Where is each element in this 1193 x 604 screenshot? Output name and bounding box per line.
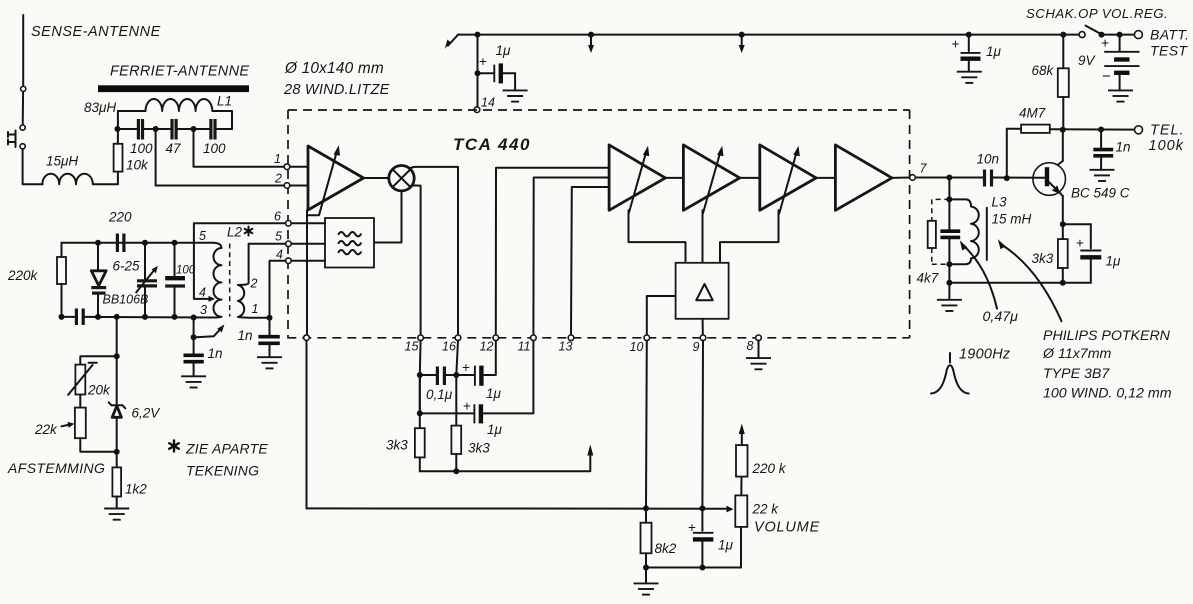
svg-text:22k: 22k	[34, 422, 58, 437]
svg-text:+: +	[479, 54, 487, 69]
svg-text:L2: L2	[227, 225, 243, 240]
svg-text:15 mH: 15 mH	[992, 212, 1032, 227]
svg-text:83μH: 83μH	[84, 100, 116, 115]
svg-text:12: 12	[480, 340, 494, 354]
svg-text:1: 1	[252, 302, 259, 316]
svg-text:5: 5	[199, 229, 206, 243]
svg-text:−: −	[1102, 68, 1111, 85]
svg-text:10k: 10k	[126, 158, 149, 173]
svg-text:BC 549 C: BC 549 C	[1071, 186, 1130, 201]
svg-text:8: 8	[747, 339, 754, 353]
svg-text:1k2: 1k2	[125, 482, 147, 497]
svg-text:100: 100	[176, 265, 196, 277]
svg-text:+: +	[688, 520, 696, 535]
svg-text:13: 13	[559, 340, 573, 354]
svg-text:220k: 220k	[7, 268, 39, 283]
svg-text:22 k: 22 k	[752, 502, 780, 517]
svg-text:L3: L3	[992, 195, 1008, 210]
svg-text:100 WIND. 0,12 mm: 100 WIND. 0,12 mm	[1043, 386, 1172, 402]
svg-text:4: 4	[199, 286, 206, 300]
svg-text:SCHAK.OP VOL.REG.: SCHAK.OP VOL.REG.	[1026, 6, 1168, 21]
svg-text:0,1μ: 0,1μ	[426, 387, 453, 402]
svg-text:1: 1	[274, 152, 281, 166]
svg-text:FERRIET-ANTENNE: FERRIET-ANTENNE	[110, 64, 249, 80]
svg-text:100: 100	[203, 141, 226, 156]
svg-text:1μ: 1μ	[496, 43, 512, 58]
svg-text:4: 4	[276, 248, 283, 262]
svg-text:3k3: 3k3	[1032, 251, 1054, 266]
svg-text:2: 2	[250, 277, 258, 291]
svg-text:28 WIND.LITZE: 28 WIND.LITZE	[283, 82, 390, 98]
svg-text:TEL.: TEL.	[1150, 123, 1185, 139]
svg-text:10: 10	[630, 340, 644, 354]
svg-text:15μH: 15μH	[46, 154, 78, 169]
svg-text:1n: 1n	[208, 346, 223, 361]
svg-text:9: 9	[693, 340, 700, 354]
svg-text:1n: 1n	[238, 328, 253, 343]
svg-text:16: 16	[442, 340, 456, 354]
svg-text:ZIE APARTE: ZIE APARTE	[185, 441, 268, 457]
svg-text:SENSE-ANTENNE: SENSE-ANTENNE	[31, 24, 161, 40]
svg-text:11: 11	[518, 340, 531, 354]
svg-text:BB106B: BB106B	[103, 293, 149, 307]
svg-text:1μ: 1μ	[1106, 254, 1122, 269]
svg-text:6-25: 6-25	[113, 259, 141, 274]
svg-text:TEKENING: TEKENING	[186, 463, 259, 479]
svg-text:TCA 440: TCA 440	[453, 135, 531, 154]
svg-text:220: 220	[108, 210, 132, 225]
svg-text:1μ: 1μ	[986, 44, 1002, 59]
svg-text:47: 47	[166, 141, 182, 156]
svg-text:3: 3	[200, 303, 207, 317]
svg-text:2: 2	[274, 172, 282, 186]
svg-text:+: +	[462, 360, 470, 375]
svg-text:TEST: TEST	[1150, 43, 1188, 59]
svg-text:+: +	[463, 399, 471, 414]
svg-text:TYPE 3B7: TYPE 3B7	[1043, 366, 1110, 382]
svg-text:100: 100	[130, 141, 153, 156]
svg-text:+: +	[952, 37, 960, 52]
svg-text:7: 7	[920, 162, 928, 176]
svg-text:1μ: 1μ	[718, 538, 734, 553]
svg-text:6: 6	[274, 210, 281, 224]
svg-text:6,2V: 6,2V	[132, 406, 162, 421]
svg-text:VOLUME: VOLUME	[754, 520, 820, 536]
svg-text:220 k: 220 k	[752, 461, 787, 476]
svg-text:AFSTEMMING: AFSTEMMING	[7, 460, 105, 476]
svg-text:1μ: 1μ	[486, 386, 502, 401]
svg-text:L1: L1	[217, 94, 232, 109]
svg-text:Ø 11x7mm: Ø 11x7mm	[1042, 346, 1112, 362]
svg-text:5: 5	[275, 230, 282, 244]
svg-text:14: 14	[481, 96, 495, 110]
svg-text:+: +	[1076, 236, 1084, 251]
svg-text:BATT.: BATT.	[1150, 27, 1189, 43]
svg-text:15: 15	[405, 340, 419, 354]
svg-text:100k: 100k	[1149, 138, 1184, 154]
svg-text:10n: 10n	[977, 152, 1000, 167]
svg-text:8k2: 8k2	[655, 541, 677, 556]
svg-text:0,47μ: 0,47μ	[983, 309, 1019, 325]
svg-text:3k3: 3k3	[468, 441, 490, 456]
svg-text:1n: 1n	[1116, 140, 1131, 155]
svg-text:PHILIPS POTKERN: PHILIPS POTKERN	[1043, 328, 1171, 344]
svg-text:9V: 9V	[1078, 53, 1097, 68]
svg-text:4k7: 4k7	[917, 271, 939, 286]
svg-text:1900Hz: 1900Hz	[959, 347, 1010, 363]
svg-text:Ø 10x140 mm: Ø 10x140 mm	[284, 60, 384, 77]
svg-text:3k3: 3k3	[386, 438, 408, 453]
svg-text:1μ: 1μ	[487, 422, 503, 437]
svg-text:68k: 68k	[1032, 63, 1055, 78]
svg-text:+: +	[1101, 35, 1109, 51]
svg-text:4M7: 4M7	[1019, 106, 1046, 121]
svg-text:20k: 20k	[87, 383, 111, 398]
